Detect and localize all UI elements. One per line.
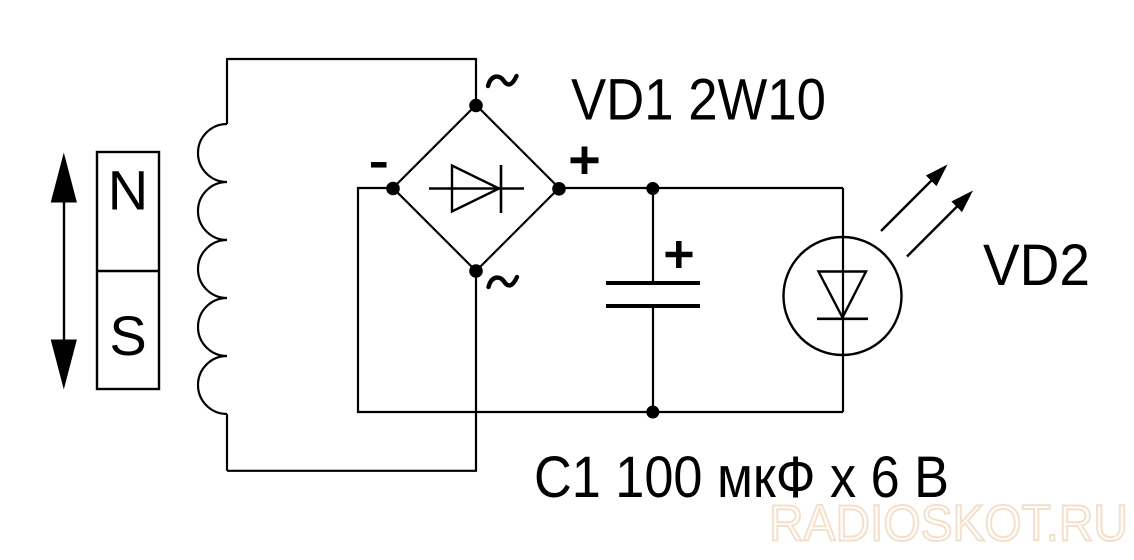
svg-text:VD1 2W10: VD1 2W10	[571, 68, 826, 133]
svg-text:RADIOSKOT.RU: RADIOSKOT.RU	[769, 495, 1128, 552]
junction dot bridge bottom	[469, 264, 483, 278]
capacitor C1 bottom plate	[606, 304, 700, 308]
junction dot bridge right	[552, 182, 566, 196]
wire: coil top lead	[226, 58, 228, 124]
LED VD2 circle	[784, 237, 902, 355]
junction dot bridge left	[386, 182, 400, 196]
wire: capacitor top lead	[652, 188, 654, 283]
svg-text:S: S	[109, 304, 146, 367]
wire: LED branch vertical	[842, 188, 844, 412]
magnet pole divider	[97, 270, 159, 272]
wire: negative bus	[358, 188, 843, 412]
wire: coil bottom lead	[226, 414, 228, 471]
AC tilde bottom	[489, 277, 518, 287]
bridge diode axis line	[429, 187, 524, 189]
svg-text:N: N	[108, 159, 148, 222]
wire: capacitor bottom lead	[652, 306, 654, 412]
bridge diode cathode bar	[500, 165, 503, 213]
plus polarity mark (bridge output)	[571, 147, 599, 175]
capacitor plus polarity mark	[666, 241, 693, 268]
svg-text:VD2: VD2	[983, 233, 1090, 298]
inductor L1 generator coil	[198, 124, 227, 414]
wire: coil top to bridge top	[227, 59, 476, 105]
AC tilde top	[488, 76, 517, 86]
junction dot bridge top	[469, 99, 483, 113]
wire: coil bottom to bridge bottom	[227, 271, 476, 471]
junction dot capacitor top	[646, 182, 659, 195]
LED VD2 triangle	[819, 272, 867, 318]
wire: positive bus	[559, 187, 843, 189]
LED VD2 cathode bar	[817, 317, 868, 320]
LED light arrow 2	[907, 191, 973, 257]
capacitor C1 top plate	[606, 281, 700, 285]
bridge diode triangle	[452, 166, 499, 212]
LED light arrow 1	[881, 165, 948, 232]
junction dot capacitor bottom	[646, 406, 659, 419]
minus polarity mark	[371, 162, 387, 168]
magnet body	[97, 152, 159, 389]
magnet motion arrow (double-headed)	[51, 153, 77, 390]
bridge rectifier VD1 diamond	[393, 105, 559, 271]
